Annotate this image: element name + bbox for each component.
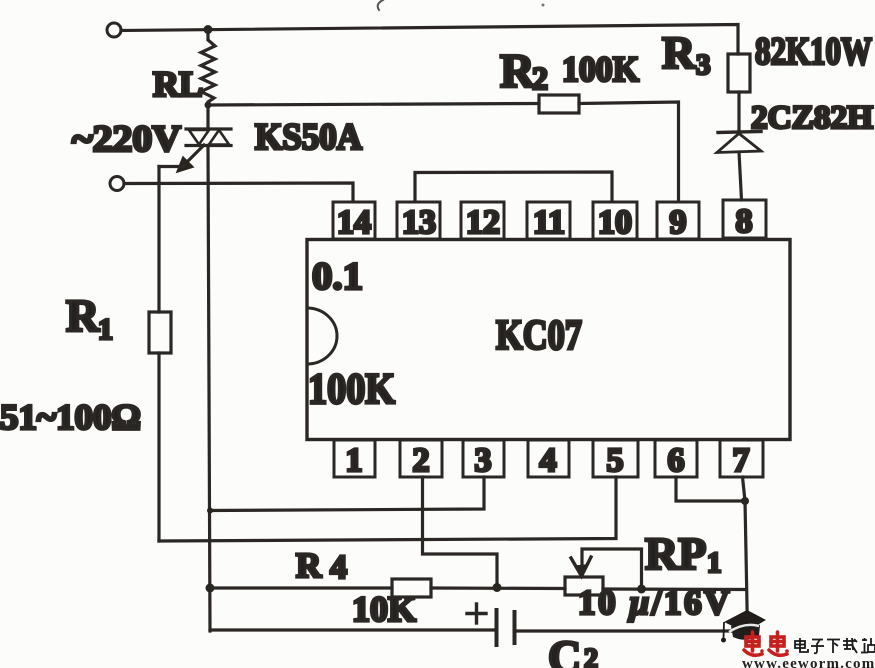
wire pin 5 to gate/R1 vertical xyxy=(159,477,616,541)
svg-text:KS50A: KS50A xyxy=(255,117,362,158)
potentiometer RP1 (box) xyxy=(565,577,603,595)
pin 2 xyxy=(400,440,442,479)
svg-text:10: 10 xyxy=(598,204,632,241)
svg-text:14: 14 xyxy=(337,204,371,241)
pin 3 xyxy=(463,440,504,479)
node RP1 wiper tie xyxy=(637,585,646,594)
node pin2 at R4 wire xyxy=(493,583,502,592)
svg-text:6: 6 xyxy=(668,442,685,479)
node R4 wire at left vertical xyxy=(206,584,215,593)
svg-text:3: 3 xyxy=(475,442,492,479)
svg-text:3: 3 xyxy=(696,49,711,81)
terminal T2 (bottom mains input) xyxy=(110,177,124,191)
svg-text:100K: 100K xyxy=(562,49,639,89)
pin 4 xyxy=(528,440,569,479)
svg-text:R: R xyxy=(662,27,696,78)
wire R4 row left xyxy=(210,586,392,589)
svg-text:2: 2 xyxy=(584,644,598,668)
svg-text:82K10W: 82K10W xyxy=(755,30,872,73)
svg-text:13: 13 xyxy=(402,204,436,241)
svg-text:51~100Ω: 51~100Ω xyxy=(0,397,141,437)
watermark eeworm logo xyxy=(721,610,875,668)
wm Chinese text zhan xyxy=(861,638,875,653)
svg-text:4: 4 xyxy=(330,549,347,586)
diode 2CZ82H xyxy=(717,92,761,200)
IC notch xyxy=(307,308,337,364)
wire gate vertical down to R1 xyxy=(157,167,160,313)
pin 13 xyxy=(397,202,440,241)
wire triac MT1 down (main left vertical) xyxy=(208,146,210,632)
pin 8 xyxy=(723,200,766,240)
wire pin 2 down to R4 node xyxy=(423,477,498,587)
wm Chinese text zai xyxy=(843,638,857,653)
wm Chinese text zi xyxy=(811,640,824,654)
svg-text:4: 4 xyxy=(540,442,557,479)
svg-text:RL: RL xyxy=(153,64,203,104)
pin 6 xyxy=(655,440,697,479)
svg-text:RP: RP xyxy=(645,528,706,579)
pin 5 xyxy=(593,440,638,479)
wire top bus from T1 to R3 xyxy=(121,25,738,55)
svg-text:www.eeworm.com: www.eeworm.com xyxy=(742,656,875,668)
svg-text:R: R xyxy=(66,290,100,341)
svg-text:8: 8 xyxy=(736,203,753,240)
pin 9 xyxy=(657,202,699,241)
IC U1 body KC07 xyxy=(307,240,790,440)
svg-text:10 μ/16V: 10 μ/16V xyxy=(578,583,732,622)
resistor RL (zigzag) xyxy=(201,30,215,106)
svg-text:~220V: ~220V xyxy=(72,119,181,160)
svg-text:2: 2 xyxy=(413,442,430,479)
wm Chinese text dian xyxy=(795,638,808,652)
wm red bug char 1 xyxy=(744,632,764,655)
node RL bottom xyxy=(205,102,212,109)
svg-text:R: R xyxy=(500,45,536,98)
svg-text:1: 1 xyxy=(707,547,722,579)
C2 polarity plus xyxy=(467,612,486,615)
pin 11 xyxy=(527,202,570,241)
wire R2 right to pin 9 xyxy=(579,102,679,201)
wire RL bottom to R2 left xyxy=(208,104,539,106)
triac gate lead with arrow blob xyxy=(186,145,204,163)
wire RP1 to right vertical xyxy=(603,587,746,591)
RP1 wiper arm xyxy=(582,549,642,589)
svg-text:100K: 100K xyxy=(308,366,395,413)
pin 1 xyxy=(334,440,375,479)
capacitor C2 plates xyxy=(495,610,499,645)
wm red bug char 2 xyxy=(769,632,789,655)
wire bottom row left of C2 xyxy=(210,628,496,631)
wire pin 7 down right vertical xyxy=(743,477,748,631)
svg-text:0.1: 0.1 xyxy=(312,255,363,298)
RP1 wiper arrowhead xyxy=(571,557,591,576)
wire R4 to RP1 xyxy=(431,586,565,590)
svg-text:R: R xyxy=(296,546,322,585)
wire bracket joining pins 13 and 10 xyxy=(415,172,612,201)
scan speck top xyxy=(378,0,383,10)
svg-text:1: 1 xyxy=(346,442,363,479)
wm graduation cap xyxy=(724,610,766,632)
svg-text:10K: 10K xyxy=(352,589,416,629)
pin 14 xyxy=(333,202,375,241)
wire pin 3 to left vertical xyxy=(210,477,484,511)
svg-text:7: 7 xyxy=(733,442,750,479)
svg-text:5: 5 xyxy=(607,442,624,479)
wire R1 bottom down to pin5 row xyxy=(157,353,160,541)
node pin3 wire at left vertical xyxy=(207,508,213,514)
pin 12 xyxy=(461,202,504,241)
svg-text:11: 11 xyxy=(533,204,565,241)
resistor R3 (box) xyxy=(728,54,750,92)
svg-text:12: 12 xyxy=(466,204,500,241)
pin 7 xyxy=(720,440,763,479)
svg-text:KC07: KC07 xyxy=(496,313,582,359)
wm Chinese text xia xyxy=(827,640,840,654)
svg-text:2CZ82H: 2CZ82H xyxy=(751,100,873,136)
triac KS50A xyxy=(186,106,231,146)
pin 10 xyxy=(593,202,637,241)
node pin6/pin7 junction xyxy=(741,497,749,505)
wire pin 6 over to pin 7 vertical xyxy=(676,477,745,501)
node junction top of RL xyxy=(204,25,213,34)
resistor R2 (box) xyxy=(539,95,579,113)
svg-text:2: 2 xyxy=(532,60,548,96)
terminal T1 (top mains input) xyxy=(107,23,121,37)
svg-text:C: C xyxy=(548,631,581,668)
svg-text:1: 1 xyxy=(98,313,113,346)
resistor R1 (box) xyxy=(149,312,171,353)
resistor R4 (box) xyxy=(392,579,431,597)
wire T2 to pin 14 xyxy=(124,183,353,201)
svg-text:9: 9 xyxy=(670,204,687,241)
wire bottom row right of C2 xyxy=(515,629,748,632)
